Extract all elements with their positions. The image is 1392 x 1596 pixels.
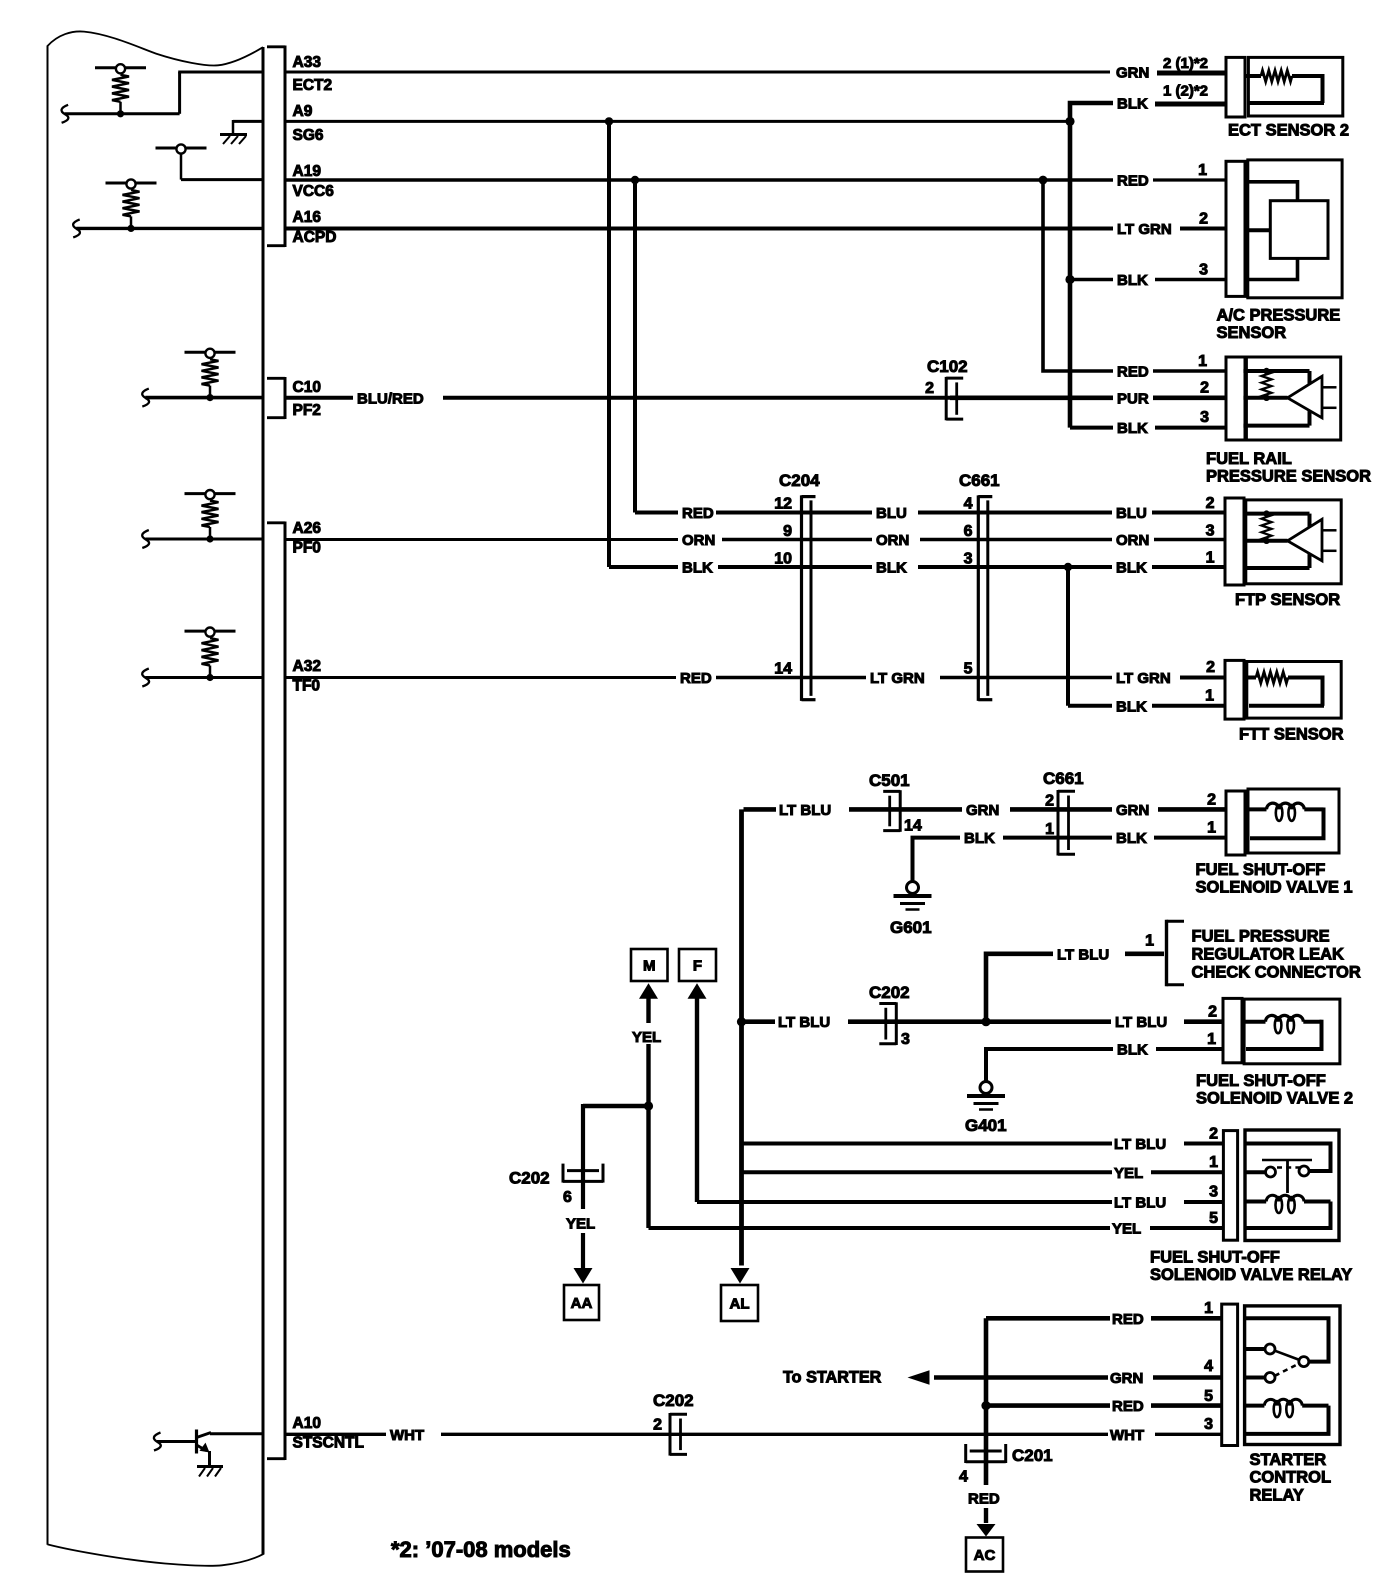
svg-text:1: 1 <box>1205 688 1214 705</box>
svg-text:2: 2 <box>1200 380 1209 397</box>
svg-text:BLK: BLK <box>1116 698 1147 715</box>
svg-text:FTP SENSOR: FTP SENSOR <box>1235 591 1340 609</box>
svg-text:C102: C102 <box>927 357 968 376</box>
svg-text:FUEL RAIL: FUEL RAIL <box>1206 450 1292 468</box>
svg-text:LT GRN: LT GRN <box>870 670 925 687</box>
svg-text:1: 1 <box>1206 550 1215 567</box>
svg-text:SOLENOID VALVE RELAY: SOLENOID VALVE RELAY <box>1150 1266 1352 1284</box>
svg-text:LT BLU: LT BLU <box>1114 1136 1166 1153</box>
svg-text:M: M <box>643 958 656 975</box>
svg-text:3: 3 <box>1200 409 1209 426</box>
svg-text:GRN: GRN <box>1116 802 1149 819</box>
svg-text:3: 3 <box>964 551 973 568</box>
svg-text:SENSOR: SENSOR <box>1217 324 1287 342</box>
svg-text:1: 1 <box>1198 162 1207 179</box>
svg-text:FUEL PRESSURE: FUEL PRESSURE <box>1192 928 1330 946</box>
svg-text:BLU: BLU <box>1116 505 1147 522</box>
svg-text:6: 6 <box>964 523 973 540</box>
svg-text:PF2: PF2 <box>293 402 321 419</box>
svg-text:2: 2 <box>925 380 934 397</box>
svg-text:A32: A32 <box>293 658 321 675</box>
svg-text:A33: A33 <box>293 54 322 71</box>
svg-text:ORN: ORN <box>876 532 909 549</box>
svg-text:LT GRN: LT GRN <box>1116 670 1171 687</box>
svg-text:LT GRN: LT GRN <box>1117 221 1172 238</box>
svg-text:A19: A19 <box>293 163 322 180</box>
svg-text:SG6: SG6 <box>293 127 324 144</box>
svg-text:ECT2: ECT2 <box>293 77 333 94</box>
svg-text:ACPD: ACPD <box>293 229 337 246</box>
svg-text:STARTER: STARTER <box>1250 1451 1327 1469</box>
svg-text:14: 14 <box>774 661 792 678</box>
svg-text:TF0: TF0 <box>293 678 321 695</box>
svg-text:GRN: GRN <box>1110 1370 1143 1387</box>
svg-text:A/C PRESSURE: A/C PRESSURE <box>1217 307 1341 325</box>
svg-text:LT BLU: LT BLU <box>1057 946 1109 963</box>
svg-text:5: 5 <box>1209 1210 1218 1227</box>
svg-text:VCC6: VCC6 <box>293 183 335 200</box>
svg-text:1: 1 <box>1207 1031 1216 1048</box>
svg-text:AC: AC <box>974 1547 996 1564</box>
svg-text:ORN: ORN <box>682 532 715 549</box>
svg-text:3: 3 <box>1199 262 1208 279</box>
svg-text:RED: RED <box>680 670 712 687</box>
svg-text:RED: RED <box>1112 1398 1144 1415</box>
svg-text:SOLENOID VALVE 2: SOLENOID VALVE 2 <box>1196 1090 1353 1108</box>
svg-text:PF0: PF0 <box>293 540 321 557</box>
svg-text:YEL: YEL <box>1112 1221 1141 1238</box>
svg-text:FUEL SHUT-OFF: FUEL SHUT-OFF <box>1196 861 1326 879</box>
svg-text:12: 12 <box>774 496 792 513</box>
svg-text:BLK: BLK <box>1117 420 1148 437</box>
svg-text:WHT: WHT <box>390 1427 424 1444</box>
svg-text:PRESSURE SENSOR: PRESSURE SENSOR <box>1206 468 1371 486</box>
svg-text:4: 4 <box>959 1469 968 1486</box>
svg-text:2: 2 <box>1206 495 1215 512</box>
svg-text:1: 1 <box>1198 353 1207 370</box>
svg-text:BLK: BLK <box>876 560 907 577</box>
svg-text:ECT SENSOR 2: ECT SENSOR 2 <box>1228 122 1349 140</box>
svg-text:RED: RED <box>968 1491 1000 1508</box>
svg-text:2: 2 <box>1045 793 1054 810</box>
svg-text:AA: AA <box>571 1295 593 1312</box>
svg-text:1: 1 <box>1209 1154 1218 1171</box>
svg-text:BLK: BLK <box>1117 96 1148 113</box>
svg-text:BLK: BLK <box>682 560 713 577</box>
svg-text:BLK: BLK <box>964 830 995 847</box>
svg-text:REGULATOR LEAK: REGULATOR LEAK <box>1192 945 1345 963</box>
svg-text:C10: C10 <box>293 379 321 396</box>
svg-text:3: 3 <box>901 1031 910 1048</box>
svg-text:2: 2 <box>1206 659 1215 676</box>
svg-text:LT BLU: LT BLU <box>778 1014 830 1031</box>
svg-text:2 (1)*2: 2 (1)*2 <box>1163 55 1208 72</box>
svg-text:5: 5 <box>1204 1388 1213 1405</box>
svg-text:A9: A9 <box>293 103 313 120</box>
svg-text:G401: G401 <box>965 1116 1007 1135</box>
svg-text:CONTROL: CONTROL <box>1250 1469 1332 1487</box>
svg-text:GRN: GRN <box>1116 65 1149 82</box>
svg-text:BLK: BLK <box>1116 830 1147 847</box>
svg-text:BLU/RED: BLU/RED <box>357 390 424 407</box>
svg-text:4: 4 <box>1204 1358 1213 1375</box>
svg-text:WHT: WHT <box>1110 1427 1144 1444</box>
svg-text:CHECK CONNECTOR: CHECK CONNECTOR <box>1192 963 1361 981</box>
svg-text:RED: RED <box>682 505 714 522</box>
svg-text:1 (2)*2: 1 (2)*2 <box>1163 83 1208 100</box>
svg-text:F: F <box>693 958 702 975</box>
svg-text:1: 1 <box>1045 821 1054 838</box>
svg-text:FTT SENSOR: FTT SENSOR <box>1239 726 1344 744</box>
svg-text:YEL: YEL <box>632 1029 661 1046</box>
svg-text:LT BLU: LT BLU <box>1115 1014 1167 1031</box>
svg-text:FUEL SHUT-OFF: FUEL SHUT-OFF <box>1196 1072 1326 1090</box>
svg-text:9: 9 <box>783 523 792 540</box>
svg-text:LT BLU: LT BLU <box>779 802 831 819</box>
svg-text:SOLENOID VALVE 1: SOLENOID VALVE 1 <box>1196 879 1353 897</box>
svg-text:10: 10 <box>774 551 792 568</box>
svg-text:C661: C661 <box>1043 769 1084 788</box>
svg-text:BLK: BLK <box>1117 272 1148 289</box>
svg-text:FUEL SHUT-OFF: FUEL SHUT-OFF <box>1150 1249 1280 1267</box>
svg-text:C201: C201 <box>1012 1446 1053 1465</box>
svg-text:5: 5 <box>964 661 973 678</box>
svg-text:RED: RED <box>1117 173 1149 190</box>
svg-text:BLK: BLK <box>1116 560 1147 577</box>
svg-text:6: 6 <box>563 1189 572 1206</box>
svg-text:14: 14 <box>904 818 922 835</box>
svg-text:2: 2 <box>1199 211 1208 228</box>
svg-text:G601: G601 <box>890 918 932 937</box>
svg-text:STSCNTL: STSCNTL <box>293 1435 364 1452</box>
svg-text:C661: C661 <box>959 471 1000 490</box>
svg-text:3: 3 <box>1206 523 1215 540</box>
svg-text:3: 3 <box>1204 1416 1213 1433</box>
svg-text:YEL: YEL <box>566 1216 595 1233</box>
svg-text:C204: C204 <box>779 471 820 490</box>
svg-text:LT BLU: LT BLU <box>1114 1195 1166 1212</box>
svg-text:C202: C202 <box>509 1169 550 1188</box>
svg-text:A10: A10 <box>293 1415 321 1432</box>
svg-text:3: 3 <box>1209 1184 1218 1201</box>
svg-text:2: 2 <box>653 1417 662 1434</box>
svg-text:To STARTER: To STARTER <box>783 1369 882 1387</box>
svg-text:C202: C202 <box>653 1391 694 1410</box>
svg-text:1: 1 <box>1145 933 1154 950</box>
svg-text:C202: C202 <box>869 983 910 1002</box>
svg-text:A26: A26 <box>293 520 322 537</box>
svg-text:2: 2 <box>1208 1004 1217 1021</box>
svg-text:YEL: YEL <box>1114 1165 1143 1182</box>
svg-text:AL: AL <box>730 1296 750 1313</box>
svg-text:ORN: ORN <box>1116 532 1149 549</box>
svg-text:2: 2 <box>1207 792 1216 809</box>
svg-text:*2: ’07-08 models: *2: ’07-08 models <box>391 1537 571 1562</box>
svg-text:A16: A16 <box>293 209 322 226</box>
svg-text:RED: RED <box>1117 364 1149 381</box>
svg-text:RED: RED <box>1112 1311 1144 1328</box>
svg-text:4: 4 <box>964 496 973 513</box>
svg-text:BLU: BLU <box>876 505 907 522</box>
svg-text:C501: C501 <box>869 771 910 790</box>
svg-text:2: 2 <box>1209 1126 1218 1143</box>
svg-text:PUR: PUR <box>1117 390 1149 407</box>
svg-text:BLK: BLK <box>1117 1042 1148 1059</box>
svg-text:GRN: GRN <box>966 802 999 819</box>
svg-text:RELAY: RELAY <box>1250 1486 1304 1504</box>
svg-text:1: 1 <box>1204 1300 1213 1317</box>
svg-text:1: 1 <box>1207 820 1216 837</box>
